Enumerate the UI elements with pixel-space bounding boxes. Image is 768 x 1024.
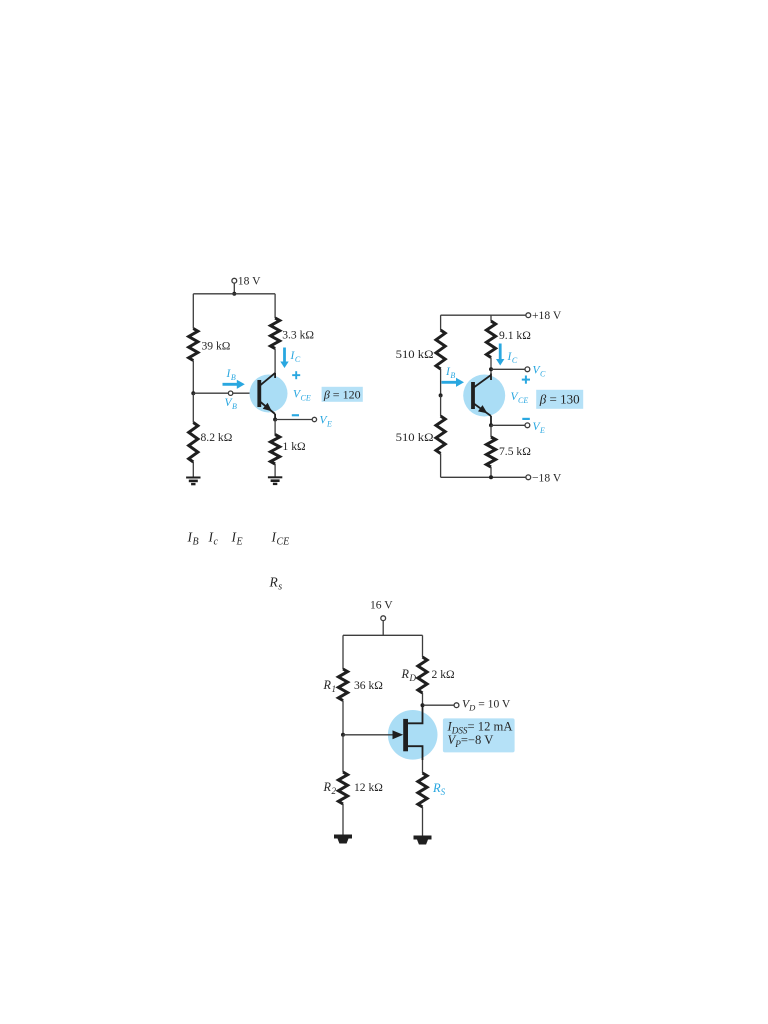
wire gate lead (343, 734, 396, 736)
jfet source lead (408, 746, 423, 760)
svg-text:39 kΩ: 39 kΩ (202, 340, 231, 353)
wire top rail jfet (343, 634, 423, 636)
wire emitter vertical (274, 414, 276, 420)
resistor 9.1 kOhm (486, 321, 495, 358)
wire RD to drain node (422, 693, 424, 705)
svg-text:IE: IE (231, 530, 243, 548)
resistor R2 12 kOhm (338, 772, 347, 804)
label minus VCE right (522, 418, 530, 420)
transistor Q1 (250, 375, 288, 413)
junction dot emitter node (273, 418, 277, 422)
terminal 18 V supply (232, 278, 237, 283)
wire emitter vertical right (490, 416, 492, 425)
wire supply stub (233, 283, 235, 294)
svg-text:IB: IB (445, 366, 455, 380)
junction dot bottom rail (489, 475, 493, 479)
wire R2 to ground (342, 804, 344, 835)
svg-text:ICE: ICE (271, 530, 290, 548)
svg-text:Rs: Rs (269, 575, 283, 593)
svg-text:−18 V: −18 V (532, 471, 562, 484)
wire 7.5k to bottom rail (490, 467, 492, 477)
svg-text:9.1 kΩ: 9.1 kΩ (499, 329, 531, 342)
svg-text:VD = 10 V: VD = 10 V (462, 697, 511, 712)
jfet drain lead (408, 705, 423, 723)
terminal VB on base wire (228, 391, 232, 395)
svg-text:β = 130: β = 130 (539, 392, 580, 407)
ground R2 (334, 835, 352, 844)
svg-text:VB: VB (225, 397, 238, 411)
svg-text:VP=−8 V: VP=−8 V (448, 733, 494, 749)
wire emitter to 7.5k (490, 425, 492, 437)
svg-text:2 kΩ: 2 kΩ (432, 668, 455, 681)
svg-text:510 kΩ: 510 kΩ (396, 431, 434, 444)
svg-text:VCE: VCE (293, 389, 311, 403)
wire collector to VC terminal (491, 368, 525, 370)
wire source down to RS (422, 760, 424, 773)
terminal -18 V (526, 475, 531, 480)
terminal VC (525, 367, 530, 372)
wire RC bottom to collector (274, 349, 276, 374)
ground RS (414, 836, 432, 845)
junction dot gate node (341, 733, 345, 737)
wire right drop to RD (422, 635, 424, 657)
resistor 8.2 kOhm (189, 423, 198, 463)
wire right drop to RC (274, 294, 276, 318)
label minus VCE (292, 414, 299, 416)
svg-text:12 kΩ: 12 kΩ (354, 781, 383, 794)
resistor RD 2 kOhm (418, 657, 427, 693)
wire R1 bottom to base node (192, 361, 194, 394)
wire 9.1k to collector node (490, 358, 492, 374)
box IDSS VP (443, 718, 515, 752)
svg-text:RS: RS (432, 781, 446, 797)
wire bottom rail right circuit (441, 476, 526, 478)
wire left drop to R divider (192, 294, 194, 329)
jfet channel bar (403, 719, 408, 751)
junction dot emitter node right (489, 423, 493, 427)
transistor JFET Q3 (388, 710, 438, 760)
wire base lead (193, 392, 259, 394)
wire collector vertical right (490, 374, 492, 381)
svg-text:RD: RD (401, 667, 417, 683)
svg-text:7.5 kΩ: 7.5 kΩ (499, 445, 531, 458)
svg-text:R1: R1 (323, 678, 336, 694)
terminal VE right (525, 423, 530, 428)
junction dot top rail (232, 292, 236, 296)
terminal VD (454, 703, 459, 708)
svg-text:Ic: Ic (208, 530, 219, 548)
wire RE to ground (274, 464, 276, 477)
wire gate node down to R2 (342, 735, 344, 772)
svg-text:IB: IB (187, 530, 199, 548)
wire base node down to R2 (192, 393, 194, 422)
junction dot base node right (439, 393, 443, 397)
ground emitter (268, 477, 282, 484)
resistor RS (418, 773, 427, 807)
ground left divider (186, 478, 200, 485)
svg-text:IC: IC (290, 350, 301, 364)
resistor R1 36 kOhm (338, 669, 347, 701)
svg-text:IB: IB (226, 368, 236, 382)
svg-text:510 kΩ: 510 kΩ (396, 348, 434, 361)
box beta 120 (322, 387, 363, 402)
svg-text:IC: IC (507, 351, 518, 365)
resistor 3.3 kOhm (271, 318, 280, 349)
wire base node to lower 510k (440, 395, 442, 416)
current arrow IB (223, 380, 245, 389)
wire left drop to 510k (440, 315, 442, 330)
svg-text:3.3 kΩ: 3.3 kΩ (282, 329, 314, 342)
terminal VE (312, 417, 316, 421)
jfet gate arrowhead (393, 730, 404, 739)
svg-text:+18 V: +18 V (532, 309, 562, 322)
svg-text:18 V: 18 V (238, 274, 261, 287)
junction dot drain node (421, 703, 425, 707)
wire R1 to gate node (342, 701, 344, 735)
svg-text:VE: VE (533, 421, 546, 435)
svg-text:1 kΩ: 1 kΩ (283, 440, 306, 453)
wire 16V stub (382, 621, 384, 636)
wire drain to VD terminal (423, 704, 455, 706)
svg-text:β = 120: β = 120 (323, 387, 361, 401)
wire collector vertical (274, 373, 276, 378)
terminal +18 V (526, 313, 531, 318)
transistor Q2 (463, 375, 505, 417)
resistor 39 kOhm (189, 329, 198, 361)
svg-text:VCE: VCE (511, 391, 529, 405)
box beta 130 (536, 390, 583, 409)
resistor 1 kOhm (271, 435, 280, 465)
wire drop to 9.1k (490, 315, 492, 321)
wire emitter down to RE (274, 420, 276, 436)
junction dot collector node (489, 367, 493, 371)
wire emitter to VE terminal right (491, 424, 525, 426)
svg-text:VC: VC (533, 364, 547, 378)
current arrow IB right (442, 378, 465, 387)
wire lower 510k to bottom rail (440, 454, 442, 478)
wire emitter to VE terminal (275, 419, 312, 421)
svg-text:VE: VE (320, 415, 333, 429)
label plus VCE right (522, 376, 530, 384)
svg-text:R2: R2 (323, 780, 337, 796)
terminal 16 V supply (381, 616, 386, 621)
current arrow IC right (496, 344, 504, 366)
junction dot base node (191, 391, 195, 395)
svg-text:8.2 kΩ: 8.2 kΩ (201, 431, 233, 444)
wire top rail (193, 293, 275, 295)
wire left drop to R1 (342, 635, 344, 669)
label plus VCE (292, 371, 300, 379)
resistor 510 kOhm lower (436, 416, 445, 454)
svg-text:36 kΩ: 36 kΩ (354, 679, 383, 692)
resistor 510 kOhm upper (436, 330, 445, 369)
wire R2 bottom to ground (192, 462, 194, 478)
wire top rail right circuit (441, 314, 526, 316)
wire RS to ground (422, 807, 424, 836)
svg-text:16 V: 16 V (370, 598, 393, 611)
wire 510k to base node (440, 369, 442, 395)
resistor 7.5 kOhm (486, 437, 495, 467)
current arrow IC (280, 348, 288, 369)
